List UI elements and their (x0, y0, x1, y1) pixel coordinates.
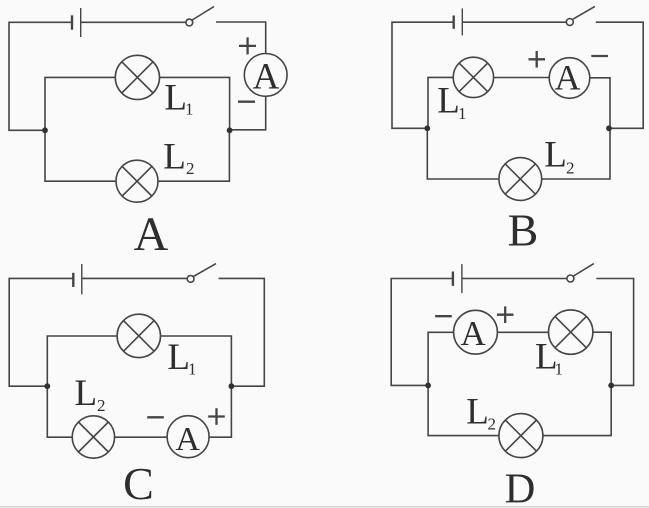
svg-text:C: C (123, 458, 154, 508)
svg-text:2: 2 (566, 159, 575, 178)
svg-text:A: A (253, 57, 280, 98)
svg-text:A: A (175, 421, 200, 458)
svg-text:2: 2 (488, 415, 497, 434)
svg-text:1: 1 (555, 360, 564, 379)
svg-text:2: 2 (97, 396, 106, 415)
svg-text:L: L (466, 392, 489, 433)
svg-text:A: A (134, 208, 169, 261)
svg-text:L: L (167, 337, 190, 378)
svg-text:L: L (164, 77, 187, 118)
svg-text:L: L (544, 135, 567, 176)
svg-text:L: L (437, 81, 460, 122)
svg-text:2: 2 (186, 159, 195, 178)
svg-text:L: L (75, 373, 98, 414)
svg-text:L: L (163, 137, 186, 178)
svg-text:D: D (505, 466, 536, 508)
svg-text:1: 1 (185, 99, 194, 118)
svg-text:A: A (461, 314, 487, 353)
svg-text:A: A (555, 58, 581, 98)
svg-text:B: B (508, 205, 539, 256)
svg-text:1: 1 (458, 104, 467, 123)
svg-text:1: 1 (188, 360, 197, 379)
